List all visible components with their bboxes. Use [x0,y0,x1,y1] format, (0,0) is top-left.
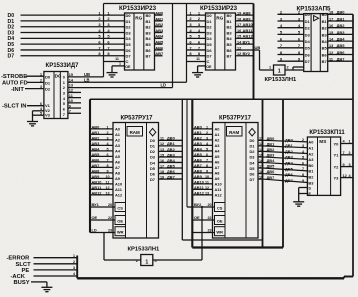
svg-text:ДВ6: ДВ6 [167,169,176,174]
svg-text:A2: A2 [308,151,314,156]
svg-text:A4: A4 [115,149,121,154]
svg-text:A0: A0 [115,127,120,132]
svg-text:10: 10 [69,99,73,103]
svg-text:9: 9 [206,169,208,173]
svg-text:ДВ0: ДВ0 [267,136,275,141]
data bus vertical x=182.3 [181,99,183,240]
svg-text:D4: D4 [150,160,156,165]
svg-text:17: 17 [237,23,241,27]
svg-text:АВ9: АВ9 [92,174,101,179]
svg-text:D2: D2 [126,25,132,30]
svg-text:ДВ6: ДВ6 [337,50,346,55]
bus vertical x=186.5 [186,4,188,83]
RAM2 CS wire ВУ2 [187,202,215,207]
bus vertical x=262.5 [262,99,264,247]
svg-text:DC: DC [55,74,62,79]
svg-text:B6: B6 [227,48,233,53]
svg-text:A7: A7 [115,165,120,170]
RAM1 WR wire [90,228,115,233]
long horizontal bus wire y=99.3 [90,98,353,100]
svg-text:19: 19 [237,12,241,16]
svg-text:B3: B3 [322,32,328,37]
svg-text:АВ12: АВ12 [194,190,205,195]
svg-text:-STROBE: -STROBE [1,74,27,80]
svg-text:D3: D3 [207,30,213,35]
svg-text:C: C [126,59,129,64]
svg-text:B2: B2 [308,175,314,180]
multiplexer DD8 КР1533КП11 [307,130,345,196]
svg-text:23: 23 [108,229,112,233]
svg-text:16: 16 [237,29,241,33]
svg-text:A2: A2 [115,138,121,143]
svg-text:B6: B6 [146,48,152,53]
RAM2 address wires [192,124,212,195]
RAM1 address wires [90,124,113,195]
svg-text:АВ10: АВ10 [243,22,254,27]
svg-text:7: 7 [106,158,108,162]
svg-text:D0: D0 [305,12,311,17]
svg-text:C: C [207,59,210,64]
svg-text:A1: A1 [308,146,314,151]
svg-text:ДВ1: ДВ1 [267,142,276,147]
svg-text:13: 13 [329,44,333,48]
svg-text:ДВ3: ДВ3 [337,30,346,35]
svg-text:D6: D6 [207,48,213,53]
bus vertical x=172.5 [172,4,174,88]
svg-text:MS: MS [319,139,326,144]
svg-text:6: 6 [40,102,42,106]
svg-text:1: 1 [269,66,271,70]
svg-text:B4: B4 [146,36,152,41]
svg-text:ВУ2: ВУ2 [243,51,251,56]
svg-text:D7: D7 [207,54,213,59]
svg-text:АВ12: АВ12 [243,34,254,39]
svg-text:2: 2 [73,260,75,264]
svg-text:АВ6: АВ6 [92,157,101,162]
svg-text:АВ1: АВ1 [155,16,164,21]
svg-text:A9: A9 [115,176,121,181]
svg-text:13: 13 [259,148,263,152]
RAM1 CS wire ВУ1 [90,202,115,207]
decoder unused output stubs [68,89,81,114]
svg-text:12: 12 [329,51,333,55]
svg-text:BUSY: BUSY [14,280,30,286]
svg-text:ОЕ: ОЕ [194,215,200,220]
svg-text:КР1533ЛН1: КР1533ЛН1 [128,247,161,253]
svg-text:16: 16 [160,159,164,163]
svg-text:D4: D4 [126,36,132,41]
svg-text:B3: B3 [146,30,152,35]
svg-text:A5: A5 [215,154,221,159]
svg-text:8: 8 [106,164,108,168]
svg-text:15: 15 [160,153,164,157]
svg-text:D5: D5 [305,46,311,51]
wire DD1 OE pin to ground [112,61,125,72]
svg-text:АВ0: АВ0 [194,124,202,129]
svg-text:B7: B7 [322,59,328,64]
svg-text:АВ3: АВ3 [92,141,101,146]
svg-text:7: 7 [69,109,71,113]
svg-text:13: 13 [160,148,164,152]
svg-text:A1: A1 [215,132,221,137]
svg-text:ДВ3: ДВ3 [167,152,176,157]
svg-text:ДВ4: ДВ4 [267,158,276,163]
svg-text:1: 1 [40,72,42,76]
svg-text:A3: A3 [308,157,314,162]
svg-text:АВ7: АВ7 [155,51,164,56]
input signal AUTO FD [2,79,44,87]
wire DD9 output up to RAM2 CS [153,206,203,260]
svg-text:5: 5 [106,147,108,151]
svg-text:B1: B1 [308,169,314,174]
svg-text:E: E [308,191,311,196]
svg-text:15: 15 [69,73,73,77]
input signal -STROBE [1,72,44,80]
svg-text:АВ10: АВ10 [92,179,102,184]
svg-text:АВ4: АВ4 [194,146,203,151]
svg-text:A10: A10 [115,182,122,187]
RAM1 data output wires [159,136,183,180]
svg-text:АВ8: АВ8 [243,11,252,16]
svg-text:ДВ5: ДВ5 [267,164,276,169]
svg-text:11: 11 [69,94,73,98]
svg-text:ДВ0: ДВ0 [337,10,346,15]
thick bus wire y=247.5 [192,246,283,248]
svg-text:ДВ4: ДВ4 [285,161,294,166]
svg-text:1: 1 [278,69,281,75]
svg-text:АВ11: АВ11 [243,28,254,33]
ground at decoder enables [27,122,38,126]
svg-text:12: 12 [259,142,263,146]
svg-text:AUTO FD: AUTO FD [2,80,28,86]
svg-text:ДВ1: ДВ1 [337,16,346,21]
svg-text:ДВ1: ДВ1 [167,141,176,146]
signal BUSY [14,280,47,287]
svg-text:A9: A9 [215,176,221,181]
svg-text:D2: D2 [305,26,311,31]
svg-text:B7: B7 [146,54,152,59]
svg-text:2: 2 [349,151,351,155]
svg-text:B2: B2 [227,25,233,30]
svg-text:17: 17 [160,164,164,168]
svg-text:CS: CS [217,205,223,210]
svg-text:A2: A2 [215,138,221,143]
svg-text:12: 12 [237,52,241,56]
svg-text:20: 20 [108,203,112,207]
svg-text:АВ5: АВ5 [194,152,203,157]
svg-text:B4: B4 [322,39,328,44]
svg-text:ДВ6: ДВ6 [285,172,294,177]
svg-text:D5: D5 [150,166,156,171]
svg-text:10: 10 [105,175,109,179]
ground under DD2 [192,73,203,77]
svg-text:3: 3 [106,136,108,140]
svg-text:Y0: Y0 [334,141,340,146]
svg-text:Y3: Y3 [334,175,340,180]
svg-text:D1: D1 [150,144,156,149]
svg-text:-ERROR: -ERROR [7,256,31,262]
address bus vertical x=90 (RAM1) [89,99,91,232]
ground under DD1 [107,73,118,77]
svg-text:D0: D0 [150,138,155,143]
svg-text:ДВ0: ДВ0 [167,136,175,141]
address bus vertical x=192.3 (RAM2) [191,99,193,247]
svg-text:17: 17 [329,17,333,21]
svg-text:3: 3 [40,85,42,89]
svg-text:B0: B0 [146,13,152,18]
svg-text:B0: B0 [227,13,233,18]
svg-text:OE: OE [125,65,131,69]
ground under DD8 [293,202,304,206]
RAM2 OE wire [192,215,214,220]
svg-text:D6: D6 [250,171,256,176]
svg-text:4: 4 [40,107,42,111]
svg-text:S: S [308,186,311,191]
svg-text:D7: D7 [126,54,132,59]
svg-text:15: 15 [259,153,263,157]
svg-text:Y2: Y2 [334,164,340,169]
svg-text:A4: A4 [215,149,221,154]
svg-text:1: 1 [145,259,148,265]
svg-text:АВ12: АВ12 [92,190,103,195]
svg-text:18: 18 [329,11,333,15]
main bottom bus wire y=278.3 [77,277,344,279]
wire DD2 clock pin [187,61,206,63]
svg-text:АВ7: АВ7 [194,163,202,168]
svg-text:A11: A11 [115,187,123,192]
right data bus vertical x=352.5 [344,14,353,278]
svg-text:1: 1 [73,254,75,258]
svg-text:2: 2 [302,138,304,142]
svg-text:A0: A0 [215,127,220,132]
svg-text:КР1533ИР23: КР1533ИР23 [119,5,157,12]
svg-text:АВ5: АВ5 [92,152,101,157]
svg-text:ДВ4: ДВ4 [337,37,346,42]
svg-text:11: 11 [205,180,209,184]
inverter DD9 КР1533ЛН1 (bottom) [128,247,161,266]
svg-text:11: 11 [329,58,333,62]
svg-text:D1: D1 [126,19,132,24]
svg-text:АВ5: АВ5 [155,40,164,45]
svg-text:ДВ2: ДВ2 [285,149,294,154]
svg-text:SLCT: SLCT [16,262,32,268]
svg-text:RAM: RAM [229,130,239,135]
svg-text:6: 6 [106,153,108,157]
svg-text:D3: D3 [126,30,132,35]
svg-text:B0: B0 [308,163,313,168]
svg-text:D2: D2 [45,87,51,92]
wire y=240 below RAM2 [182,239,262,241]
svg-text:B1: B1 [227,19,233,24]
DD3 output stubs ДВ0-ДВ7 [328,10,353,62]
svg-text:ДВ2: ДВ2 [337,23,346,28]
svg-text:ДВ7: ДВ7 [285,178,293,183]
wire RAM1 WR down to DD9 input [104,233,141,261]
svg-text:16: 16 [329,24,333,28]
svg-text:2: 2 [206,131,208,135]
svg-text:D6: D6 [150,171,156,176]
svg-text:КР1533ИД7: КР1533ИД7 [46,63,80,69]
svg-text:12: 12 [160,142,164,146]
svg-text:ДВ2: ДВ2 [167,147,176,152]
DD8 select pins to ground [299,188,308,202]
svg-text:2: 2 [287,66,289,70]
svg-text:3: 3 [73,266,75,270]
svg-text:7: 7 [343,151,345,155]
svg-text:5: 5 [206,147,208,151]
svg-text:АВ2: АВ2 [155,22,164,27]
svg-text:A8: A8 [215,171,221,176]
svg-text:WR: WR [216,230,223,235]
svg-text:13: 13 [69,84,73,88]
svg-text:B2: B2 [146,25,152,30]
svg-text:6: 6 [302,161,304,165]
wire DD1 clock pin [104,61,125,63]
svg-text:17: 17 [259,164,263,168]
bus vertical x=253.5 (DD2 outputs) [253,4,255,100]
svg-text:LB: LB [84,77,90,82]
svg-text:D3: D3 [250,155,256,160]
svg-text:A6: A6 [115,160,121,165]
svg-text:D0: D0 [207,13,213,18]
svg-text:A8: A8 [115,171,121,176]
svg-text:0: 0 [63,74,65,79]
wire DD2 OE pin to ground [198,66,206,73]
svg-text:D3: D3 [305,32,311,37]
RAM DD7 КР537РУ17 (right) [213,123,259,239]
svg-text:3: 3 [206,136,208,140]
svg-text:WR: WR [117,230,124,235]
svg-text:D6: D6 [126,48,132,53]
svg-text:ВУ2: ВУ2 [194,202,202,207]
svg-text:КР1533ИР23: КР1533ИР23 [200,5,238,12]
svg-text:7: 7 [206,158,208,162]
svg-text:D5: D5 [250,166,256,171]
svg-text:1: 1 [106,125,108,129]
svg-text:RAM: RAM [130,130,140,135]
svg-text:11: 11 [106,180,110,184]
ground at BUSY [41,287,52,291]
svg-text:12: 12 [69,89,73,93]
svg-text:АВ0: АВ0 [92,124,100,129]
svg-text:D7: D7 [250,177,255,182]
svg-text:ДВ5: ДВ5 [285,166,294,171]
svg-text:D5: D5 [207,42,213,47]
svg-text:D0: D0 [45,75,51,80]
svg-text:2: 2 [106,131,108,135]
svg-text:АВ9: АВ9 [243,16,252,21]
svg-text:A3: A3 [215,143,221,148]
svg-text:12: 12 [343,174,347,178]
svg-text:UB: UB [255,45,261,50]
svg-text:LD: LD [92,228,97,233]
DD3 enable pins from DD4 [285,67,304,70]
svg-text:D0: D0 [250,138,255,143]
svg-text:A10: A10 [215,182,222,187]
svg-text:CS: CS [117,205,123,210]
svg-text:-INIT: -INIT [11,87,24,93]
svg-text:18: 18 [259,170,263,174]
svg-text:19: 19 [259,175,263,179]
svg-text:A11: A11 [215,187,223,192]
svg-text:АВ3: АВ3 [155,28,164,33]
svg-text:ДВ2: ДВ2 [267,147,276,152]
svg-text:9: 9 [343,163,345,167]
wire UB from DD2 to inverter DD4 [236,45,261,70]
svg-text:D7: D7 [305,59,311,64]
RAM2 WR wire [192,229,214,233]
RAM1 OE wire [90,215,115,220]
input signal -INIT [11,85,44,93]
svg-text:8: 8 [302,173,304,177]
decoder output wire UB [68,72,104,77]
svg-text:OE: OE [206,65,212,69]
svg-text:B7: B7 [227,54,233,59]
svg-text:1: 1 [119,61,121,65]
svg-text:1: 1 [349,140,351,144]
svg-text:B5: B5 [146,42,152,47]
DD1 output stubs АВ0-АВ7 [155,11,164,57]
svg-text:4: 4 [73,272,75,276]
svg-text:D7: D7 [8,54,15,60]
svg-text:D2: D2 [150,149,156,154]
svg-text:D6: D6 [305,52,311,57]
svg-text:OE: OE [117,218,123,223]
svg-text:КР1533ЛН1: КР1533ЛН1 [265,77,298,83]
svg-text:1: 1 [206,125,208,129]
decoder output wire LD [68,83,173,88]
svg-text:ДВ7: ДВ7 [267,175,275,180]
svg-text:5: 5 [302,156,304,160]
svg-text:12: 12 [205,186,209,190]
svg-text:КР537РУ17: КР537РУ17 [120,116,153,122]
input signal -SLCT IN [2,102,44,110]
svg-text:PE: PE [22,268,30,274]
svg-text:B2: B2 [322,26,328,31]
svg-text:7: 7 [63,112,65,117]
svg-text:D5: D5 [126,42,132,47]
data bus lines D0-D7 [8,10,125,59]
svg-text:АВ6: АВ6 [155,45,164,50]
svg-text:9: 9 [106,169,108,173]
svg-text:Y1: Y1 [334,153,340,158]
svg-text:D7: D7 [150,177,155,182]
svg-text:D1: D1 [207,19,213,24]
svg-text:ДВ0: ДВ0 [285,137,293,142]
svg-text:6: 6 [206,153,208,157]
svg-text:18: 18 [237,17,241,21]
svg-text:ДВ3: ДВ3 [285,155,294,160]
svg-text:13: 13 [105,191,109,195]
svg-text:ДВ5: ДВ5 [167,163,176,168]
svg-text:A12: A12 [115,193,123,198]
svg-text:15: 15 [237,35,241,39]
svg-text:LD: LD [161,83,167,88]
svg-text:ДВ6: ДВ6 [267,169,276,174]
svg-text:B3: B3 [227,30,233,35]
signal PE [22,266,78,274]
svg-text:АВ3: АВ3 [194,141,203,146]
svg-text:D2: D2 [207,25,213,30]
svg-text:D4: D4 [305,39,311,44]
svg-text:RG: RG [135,15,142,20]
svg-text:18: 18 [160,170,164,174]
svg-text:OE: OE [217,218,223,223]
svg-text:АВ11: АВ11 [194,185,205,190]
svg-text:7: 7 [302,167,304,171]
svg-text:A6: A6 [215,160,221,165]
svg-text:11: 11 [115,57,119,61]
